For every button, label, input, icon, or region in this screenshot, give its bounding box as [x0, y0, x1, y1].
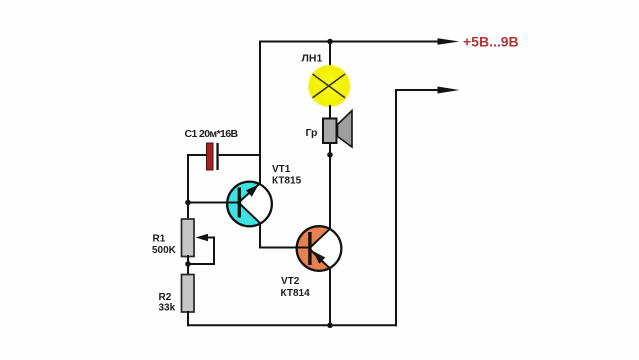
speaker Гр body	[323, 119, 337, 144]
lamp cross line 2	[313, 74, 346, 98]
svg-text:VT1: VT1	[272, 164, 291, 175]
potentiometer R1 wiper arrow	[196, 234, 209, 241]
transistor VT1 emitter arrow	[246, 185, 259, 197]
wire: VT1 base inside body	[225, 202, 239, 204]
wire: VT2 base inside body	[295, 247, 310, 249]
svg-text:500K: 500K	[152, 245, 177, 256]
wire: right branch vertical	[395, 89, 397, 326]
transistor VT2 base bar	[308, 232, 311, 265]
node: base divider junction	[185, 200, 191, 206]
transistor VT2 emitter arrow	[313, 251, 326, 264]
transistor VT2 body	[297, 226, 342, 271]
wire: R2 bottom to rail	[187, 311, 189, 326]
wire: C1 right lead	[219, 154, 261, 156]
transistor VT2 collector line	[310, 229, 330, 248]
svg-text:Гр: Гр	[306, 127, 318, 139]
wire: C1 left lead	[188, 155, 207, 220]
wire: right branch horizontal to output	[395, 89, 440, 91]
node: wiper to R1 bottom junction	[185, 261, 191, 267]
arrowhead: second output	[438, 87, 460, 94]
speaker Гр horn	[338, 111, 353, 148]
wire: wiper link	[189, 238, 214, 265]
transistor VT1 base bar	[238, 188, 241, 218]
transistor VT2 white wedge	[311, 229, 341, 268]
transistor VT1 collector line	[240, 204, 261, 224]
node: speaker bottom junction	[327, 152, 333, 158]
wire: bottom rail	[187, 324, 397, 326]
wire: speaker bottom to VT2 collector	[329, 143, 331, 230]
transistor VT1 emitter line	[240, 184, 260, 202]
wire: top power rail	[259, 41, 440, 43]
arrowhead: +V output	[438, 38, 460, 44]
wire: VT1 base wire	[188, 202, 240, 204]
wire: junction to lamp top	[329, 42, 331, 68]
svg-text:ЛН1: ЛН1	[302, 53, 323, 65]
transistor VT1 outline	[227, 182, 272, 227]
svg-text:VT2: VT2	[281, 276, 300, 287]
resistor R1 (potentiometer) body	[182, 219, 195, 257]
wire: VT2 emitter down to bottom rail	[329, 268, 331, 327]
svg-text:33k: 33k	[159, 303, 176, 314]
lamp cross line 1	[313, 74, 346, 98]
lamp ЛН1 bulb	[308, 65, 350, 107]
capacitor C1 positive plate	[207, 143, 214, 170]
svg-text:+5В...9В: +5В...9В	[463, 34, 519, 50]
svg-text:КТ815: КТ815	[272, 176, 302, 187]
node: rail to lamp junction	[327, 39, 333, 45]
transistor VT1 body	[227, 182, 272, 227]
svg-text:С1 20м*16В: С1 20м*16В	[185, 128, 239, 140]
transistor VT2 emitter line	[310, 250, 330, 269]
wire: R1 bottom to R2 top	[187, 255, 189, 275]
capacitor C1 negative plate	[216, 143, 218, 170]
transistor VT1 white wedge	[241, 184, 272, 223]
resistor R2 body	[182, 275, 195, 313]
wire: lamp bottom to speaker	[329, 105, 331, 120]
svg-text:КТ814: КТ814	[281, 288, 311, 299]
svg-text:R2: R2	[159, 292, 172, 303]
node: bottom rail junction	[327, 323, 333, 329]
transistor VT2 outline	[297, 226, 342, 271]
wire: VT1 emitter to VT2 base	[260, 223, 310, 248]
svg-text:R1: R1	[153, 234, 166, 245]
wire: left vertical from rail to VT1 collector	[259, 41, 261, 185]
